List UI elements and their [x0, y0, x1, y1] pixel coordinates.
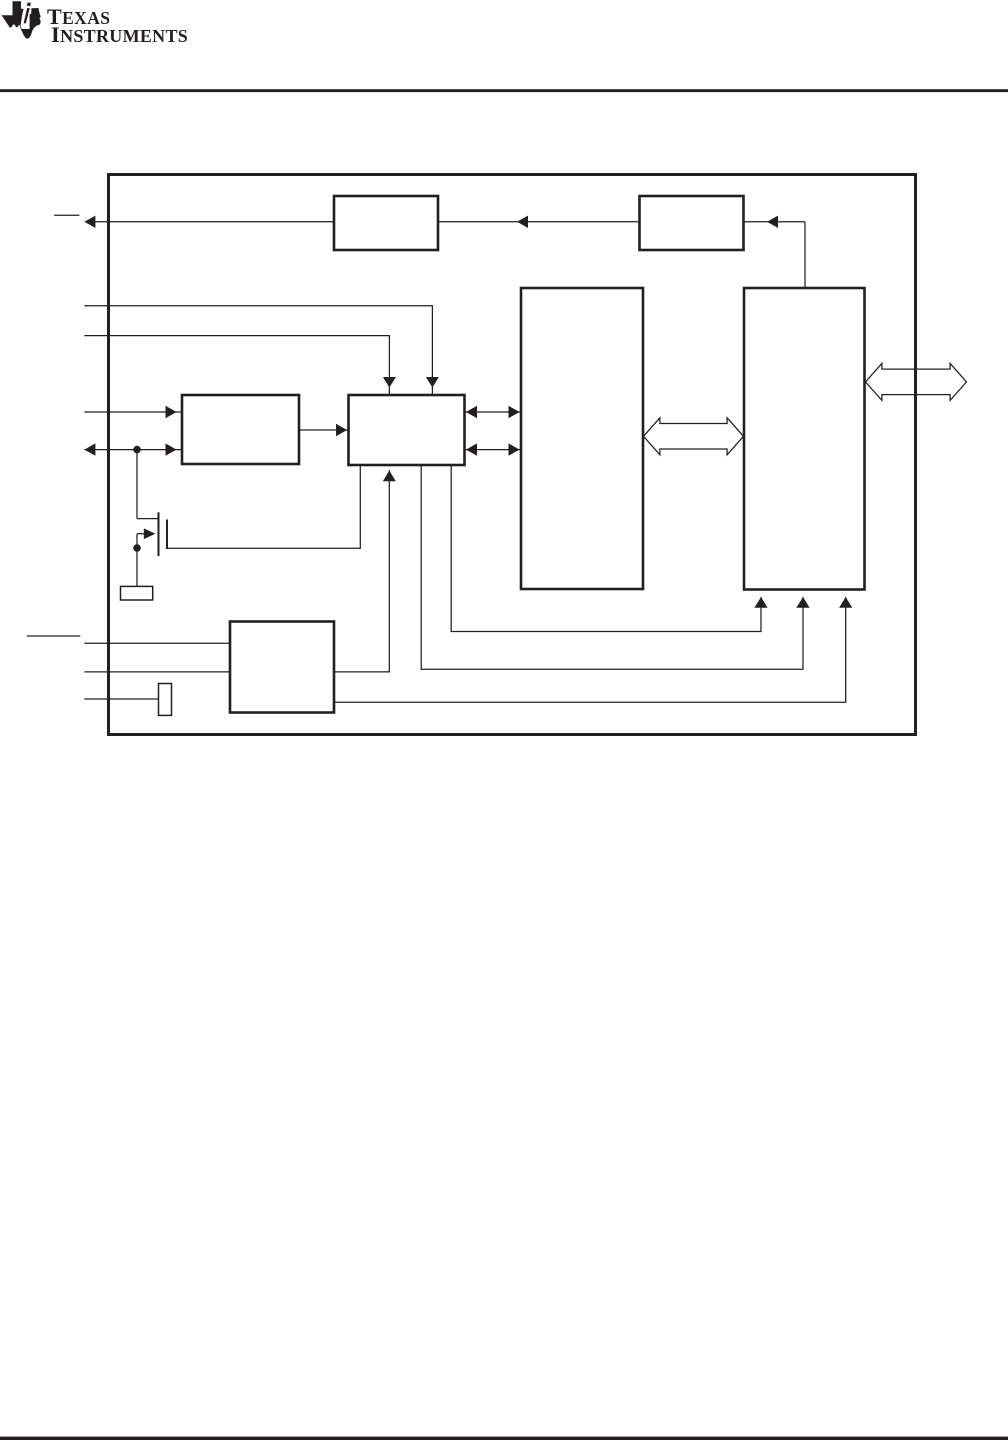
wire drain to BB bottom: [167, 465, 360, 548]
wire W4 bidirectional into BA: [84, 449, 182, 451]
wire gate feed down from W4 dot: [136, 450, 138, 519]
block BE center tall: [521, 288, 643, 589]
block B1: [334, 196, 438, 250]
TI logo bug: [1, 1, 41, 39]
block BC: [230, 622, 334, 713]
block B2: [640, 196, 744, 250]
transistor Q1 source arrowhead: [144, 528, 156, 539]
wire W3 into BA: [84, 411, 182, 413]
arrowhead left at BB lower: [466, 443, 477, 455]
wire BA to BB: [299, 429, 349, 431]
wire W8 BC to BB bottom: [334, 470, 389, 672]
wire dot down to box J: [136, 548, 138, 586]
arrowhead W9 up into BD: [796, 597, 809, 608]
pin stub bottom-left: [27, 635, 81, 637]
wordmark INSTRUMENTS: [51, 22, 188, 48]
arrowhead BA-BB right: [336, 424, 347, 436]
wire W14 into resistor R1: [84, 698, 158, 700]
box J substrate label box: [121, 586, 153, 600]
junction dot W4: [133, 446, 141, 454]
junction dot transistor: [133, 544, 141, 552]
wire gate feed horizontal: [137, 518, 159, 520]
arrowhead W11 up into BD: [839, 597, 852, 608]
arrowhead W8 up into BB: [383, 471, 396, 482]
wire W2 into BB top: [84, 336, 389, 395]
transistor Q1 channel bar: [166, 520, 168, 550]
arrowhead W1 down: [426, 377, 439, 388]
wire source to dot: [136, 534, 138, 548]
block BB: [349, 395, 465, 465]
wordmark TEXAS: [47, 4, 110, 30]
resistor R1: [159, 684, 172, 716]
arrowhead W4 right: [166, 443, 177, 455]
pin stub top-left: [54, 214, 79, 216]
wire W10 BB bottom down right to BD: [451, 465, 761, 632]
arrowhead right at BE lower: [509, 443, 520, 455]
arrowhead mid wire B2-corner: [767, 216, 778, 228]
wire W12 into BC: [84, 642, 230, 644]
transistor Q1 gate bar: [158, 512, 160, 556]
wire top chain left segment: [91, 221, 334, 223]
wire corner down to BD top: [804, 222, 806, 288]
outer block boundary: [109, 175, 916, 735]
arrowhead mid wire B1-B2: [517, 216, 528, 228]
arrowhead right at BE upper: [509, 406, 520, 418]
arrowhead W10 up into BD: [754, 597, 767, 608]
arrowhead W3 right: [166, 406, 177, 418]
footer rule: [0, 1437, 1008, 1440]
header rule: [0, 89, 1008, 92]
wire W9 BB bottom down right to BD: [421, 465, 803, 669]
block BA: [182, 395, 299, 464]
wire BB-BE lower bidirectional: [465, 449, 522, 451]
hollow double arrow BE-BD: [644, 418, 744, 455]
wire BB-BE upper bidirectional: [465, 411, 522, 413]
hollow double arrow BD to external bus: [866, 363, 967, 400]
arrowhead left at BB upper: [466, 406, 477, 418]
wire B1 to B2: [438, 221, 640, 223]
transistor Q1 source arrow line: [137, 533, 147, 535]
wire W13 into BC: [84, 671, 230, 673]
wire B2 to corner: [744, 221, 806, 223]
arrowhead W4 out left: [84, 443, 95, 455]
arrowhead out left top: [84, 216, 95, 228]
arrowhead W2 down: [383, 377, 396, 388]
wire W11 BC to BD bottom: [334, 597, 846, 702]
wire W1 into BB top: [84, 306, 432, 395]
block BD right tall: [744, 288, 865, 590]
